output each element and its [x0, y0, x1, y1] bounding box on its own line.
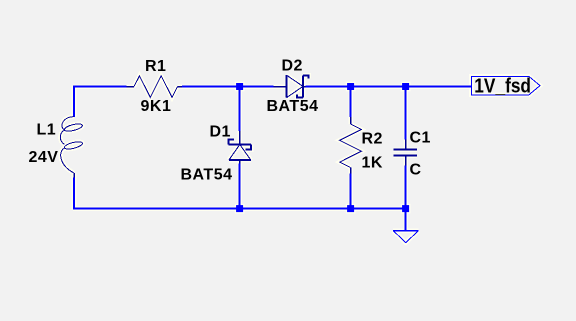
- svg-text:1K: 1K: [362, 154, 383, 171]
- svg-text:24V: 24V: [29, 149, 59, 166]
- svg-text:L1: L1: [37, 122, 57, 139]
- svg-text:D2: D2: [282, 58, 303, 75]
- svg-text:R2: R2: [362, 130, 383, 147]
- svg-text:1V_fsd: 1V_fsd: [474, 74, 531, 96]
- svg-text:BAT54: BAT54: [267, 98, 319, 115]
- svg-text:R1: R1: [145, 58, 166, 75]
- svg-text:BAT54: BAT54: [181, 166, 233, 183]
- svg-text:C1: C1: [410, 129, 431, 146]
- svg-text:C: C: [410, 162, 422, 179]
- svg-text:9K1: 9K1: [141, 98, 172, 115]
- svg-text:D1: D1: [210, 124, 231, 141]
